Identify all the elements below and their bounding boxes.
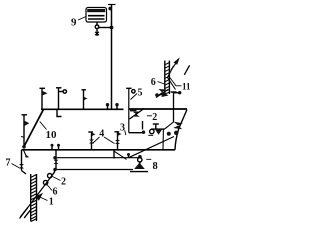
svg-text:10: 10 — [46, 129, 58, 141]
floor drain 8 triangle — [134, 163, 145, 169]
faucet B cap — [56, 87, 62, 89]
junction blob bottom right — [174, 131, 178, 135]
fitting blob under branch line — [130, 109, 137, 111]
stub dot right of riser — [116, 105, 118, 109]
trap 2 horizontal — [151, 128, 165, 130]
tank inner stripe 2 — [88, 18, 105, 20]
right branch horizontal — [129, 108, 187, 110]
leader 6 left — [47, 184, 53, 191]
riser end cap — [108, 4, 116, 6]
tank feed valve circle — [95, 25, 99, 29]
faucet B arm — [59, 91, 64, 93]
drop elbow below main — [57, 109, 62, 116]
faucet D cap — [22, 114, 28, 116]
leader 10 — [40, 122, 47, 130]
trap 2 valve stem — [155, 124, 157, 129]
svg-text:3: 3 — [120, 123, 125, 134]
stub dot on second line — [128, 155, 130, 158]
wall bar left edges — [30, 174, 32, 221]
riser pipe to tank — [111, 5, 113, 109]
faucet C cap — [82, 89, 87, 91]
drain assembly 7 — [21, 150, 23, 171]
svg-text:7: 7 — [6, 158, 11, 169]
junction blob lower-left — [22, 145, 26, 149]
mid drop from lower main — [113, 150, 115, 159]
wall sleeve right bar edges — [164, 61, 166, 95]
svg-text:9: 9 — [71, 17, 77, 29]
leader 2 left — [53, 177, 61, 181]
junction blob third line — [53, 168, 56, 171]
valve 4 right bowtie — [115, 140, 120, 144]
svg-text:2: 2 — [152, 112, 157, 123]
faucet D tick — [21, 136, 24, 139]
floor drain 8 ground — [130, 171, 148, 173]
valve 4 left: stem — [91, 132, 93, 150]
valve circle lower — [43, 180, 47, 184]
stub dot on lower main 2 — [58, 146, 60, 150]
faucet 5 circle — [132, 90, 135, 93]
tank inner stripe 1 — [88, 15, 105, 17]
trap 2 triangle — [155, 130, 162, 135]
leader 4 left — [93, 137, 100, 144]
entry arrow dashes — [21, 208, 32, 219]
valve 4 right: stem — [117, 132, 119, 150]
leader 4 right — [104, 137, 115, 144]
right riser stub dot — [174, 92, 179, 94]
right riser cap — [171, 91, 177, 93]
svg-text:2: 2 — [61, 177, 66, 188]
valve 4 left bowtie — [89, 140, 94, 144]
curl B circle — [167, 132, 171, 136]
leader 9 — [78, 17, 86, 21]
faucet C stem — [83, 90, 85, 110]
flush outlet stem — [96, 29, 98, 36]
small drain stub at left junction — [24, 150, 29, 157]
svg-text:1: 1 — [49, 196, 54, 207]
floor drain 8 circle — [138, 158, 142, 162]
valve 4 left cap — [88, 131, 93, 133]
trap 2 link — [165, 122, 174, 129]
tank feed horizontal — [99, 27, 112, 29]
mid drop diagonal — [114, 151, 126, 159]
steep diagonal right — [175, 110, 187, 150]
fixture drop right — [162, 129, 164, 150]
faucet D flag — [24, 121, 29, 127]
leader 1 — [38, 196, 48, 201]
entry pipe diagonal — [20, 178, 51, 219]
fixture drop on line 3 — [142, 121, 144, 130]
faucet A cap — [40, 87, 46, 89]
valve cluster at riser bend — [158, 89, 166, 96]
upper branch main — [41, 108, 124, 110]
faucet 5 cap — [126, 87, 131, 89]
junction dot riser/tank feed — [110, 26, 114, 30]
tank feed pipe — [96, 22, 98, 25]
lower main — [22, 149, 176, 151]
second line diagonal to corner — [129, 137, 175, 158]
diagonal main left — [24, 109, 44, 146]
dot end of line 3 — [142, 131, 145, 134]
stub dot on lower main 1 — [51, 146, 53, 150]
svg-text:4: 4 — [99, 128, 104, 139]
bowtie on steep diagonal — [173, 122, 183, 130]
faucet B circle — [63, 90, 66, 93]
leader 8 — [146, 158, 151, 160]
trap 2 valve cap — [153, 123, 159, 125]
trap 2 curl circle — [150, 129, 154, 133]
leader 3 — [125, 130, 126, 135]
continuation dash — [184, 65, 189, 75]
wall sleeve right hatches — [165, 63, 170, 95]
bowtie on D1 — [133, 112, 141, 117]
water meter circle — [48, 174, 52, 178]
svg-text:11: 11 — [182, 82, 191, 92]
faucet A stem — [41, 88, 43, 109]
svg-text:5: 5 — [138, 88, 143, 99]
junction blob second line — [53, 156, 56, 159]
leader 7 — [12, 164, 20, 169]
leader 5 — [131, 94, 138, 100]
entry elbow to mains — [51, 170, 55, 178]
faucet D stem — [23, 115, 25, 147]
branch line 3 — [129, 132, 143, 134]
wall bar left hatches — [31, 175, 37, 222]
svg-text:8: 8 — [153, 161, 158, 172]
flow arrow up — [171, 60, 179, 71]
stub dot left of riser — [107, 105, 109, 109]
faucet 5 stem — [128, 88, 130, 132]
svg-text:6: 6 — [151, 77, 156, 88]
right riser — [173, 92, 175, 123]
entry arrowhead — [35, 193, 43, 201]
leader 11 — [170, 78, 182, 86]
leader 2 right — [147, 115, 152, 117]
faucet B stem — [58, 88, 60, 110]
leader 6 right — [158, 82, 165, 85]
riser continuation zigzag — [168, 66, 176, 90]
valve 4 right cap — [115, 131, 120, 133]
floor drain 8 stem — [139, 162, 141, 164]
faucet C flag — [84, 97, 88, 100]
diagonal D1 — [130, 109, 145, 120]
tank top bar — [87, 9, 105, 12]
bowtie on left drop — [54, 160, 59, 164]
flush outlet star — [95, 32, 99, 35]
dot at riser top — [108, 7, 112, 11]
third branch line — [55, 169, 134, 171]
left drop connecting mains — [55, 150, 57, 170]
second branch line — [55, 157, 141, 159]
flush tank 9 box — [86, 8, 107, 23]
faucet A flag — [42, 91, 48, 96]
